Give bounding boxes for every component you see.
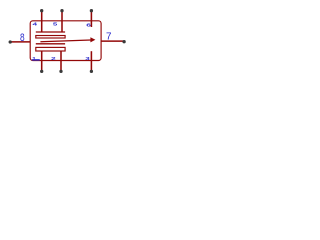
svg-text:8: 8 bbox=[20, 32, 25, 44]
junction dot pin 4 bbox=[40, 9, 43, 12]
junction dot pin 5 bbox=[60, 9, 63, 12]
background bbox=[0, 0, 133, 83]
pin number 1 label bbox=[32, 57, 39, 62]
wire pin 6 (top-right vertical) bbox=[90, 11, 92, 27]
wire pin 1 (bottom-left vertical) bbox=[41, 51, 43, 71]
junction dot pin 3 bbox=[90, 70, 93, 73]
svg-text:7: 7 bbox=[106, 31, 112, 42]
capacitor section 2 plate bbox=[36, 43, 65, 45]
wire pin 2 (bottom-middle vertical) bbox=[60, 51, 62, 71]
junction dot pin 2 bbox=[59, 70, 62, 73]
junction dot pin 7 bbox=[122, 40, 125, 43]
capacitor section 2 body rect bbox=[36, 47, 65, 51]
svg-text:2: 2 bbox=[51, 57, 56, 62]
junction dot pin 8 bbox=[9, 40, 12, 43]
svg-text:5: 5 bbox=[53, 22, 58, 27]
svg-text:3: 3 bbox=[85, 56, 90, 61]
capacitor section 1 body rect bbox=[36, 36, 65, 39]
junction dot pin 1 bbox=[40, 70, 43, 73]
wire pin 4 (top-left vertical) bbox=[41, 11, 43, 32]
svg-text:4: 4 bbox=[32, 22, 37, 27]
symbol box U1 (rounded outline) bbox=[30, 21, 101, 61]
wire pin 3 (bottom-right vertical) bbox=[90, 51, 92, 71]
wire pin 7 (right horizontal) bbox=[101, 40, 124, 42]
adjustment arrow head bbox=[90, 37, 95, 42]
svg-text:6: 6 bbox=[86, 23, 91, 28]
wire pin 5 (top-middle vertical) bbox=[61, 11, 63, 32]
junction dot pin 6 bbox=[90, 9, 93, 12]
capacitor section 1 plate bbox=[36, 31, 65, 33]
wire pin 8 (left horizontal) bbox=[10, 41, 30, 43]
adjustment arrow shaft bbox=[40, 40, 90, 42]
